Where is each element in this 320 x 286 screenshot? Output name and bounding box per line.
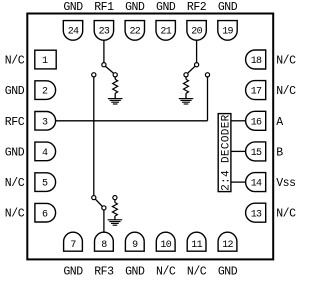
svg-text:20: 20 <box>191 27 202 38</box>
wire decoder to pin 14 (Vss) <box>231 181 246 183</box>
switch SW2 pivot contact <box>195 63 199 67</box>
pin 9 pad (bottom row) <box>125 232 144 251</box>
svg-text:N/C: N/C <box>5 55 25 68</box>
svg-text:19: 19 <box>222 27 233 38</box>
svg-text:3: 3 <box>42 117 48 128</box>
wire switch SW3 pivot down to pin 8 (RF3) <box>103 210 105 232</box>
svg-text:14: 14 <box>251 179 262 190</box>
pin 18 pad (right column) <box>246 50 266 69</box>
pin 14 pad (right column) <box>246 173 266 192</box>
svg-text:2: 2 <box>42 87 48 98</box>
svg-text:GND: GND <box>125 266 145 279</box>
pin 22 pad (top row) <box>125 21 144 41</box>
svg-text:22: 22 <box>129 27 140 38</box>
svg-text:16: 16 <box>251 117 262 128</box>
pin 15 pad (right column) <box>246 142 266 161</box>
wire from pin 23 (RF1) down to switch pivot <box>103 40 105 62</box>
wire from pin 20 (RF2) down to switch pivot <box>196 40 198 62</box>
pin 6 pad (left column) <box>35 203 56 222</box>
resistor R2 (RF2 termination) <box>184 79 189 93</box>
pin 13 pad (right column) <box>246 203 266 222</box>
pin 19 pad (top row) <box>218 21 237 41</box>
switch SW2 termination contact <box>184 73 188 77</box>
ground symbol below R1 <box>108 98 123 100</box>
pin 2 pad (left column) <box>35 81 56 100</box>
switch SW1 arm (thrown to termination) <box>105 66 113 73</box>
svg-text:N/C: N/C <box>5 208 25 221</box>
svg-text:GND: GND <box>218 266 238 279</box>
switch SW1 pivot contact <box>102 63 106 67</box>
svg-text:11: 11 <box>191 240 202 251</box>
svg-text:24: 24 <box>68 27 79 38</box>
decoder U1 block <box>218 114 232 192</box>
pin 17 pad (right column) <box>246 81 266 100</box>
svg-text:21: 21 <box>160 27 171 38</box>
pin 10 pad (bottom row) <box>156 232 175 251</box>
pin 1 pad (square, left column) <box>35 50 56 69</box>
pin 7 pad (bottom row) <box>64 232 83 251</box>
svg-text:18: 18 <box>251 56 262 67</box>
svg-text:GND: GND <box>218 1 238 14</box>
svg-text:5: 5 <box>42 179 48 190</box>
svg-text:GND: GND <box>63 266 83 279</box>
RFC vertical bus wire (SW1 contact to SW3 contact) <box>93 77 95 196</box>
pin 5 pad (left column) <box>35 173 56 192</box>
switch SW3 termination contact (open) <box>113 196 117 200</box>
svg-text:N/C: N/C <box>276 85 296 98</box>
svg-text:15: 15 <box>251 148 262 159</box>
svg-text:10: 10 <box>160 240 171 251</box>
switch SW3 arm (closed to RFC) <box>95 199 102 206</box>
wire termination contact to resistor R1 <box>114 77 116 79</box>
svg-text:12: 12 <box>222 240 233 251</box>
svg-text:N/C: N/C <box>276 55 296 68</box>
svg-text:RF1: RF1 <box>94 1 114 14</box>
switch SW1 termination contact <box>113 73 117 77</box>
pin 12 pad (bottom row) <box>218 232 237 251</box>
pin 4 pad (left column) <box>35 142 56 161</box>
wire resistor R3 to ground <box>114 216 116 220</box>
svg-text:17: 17 <box>251 87 262 98</box>
svg-text:7: 7 <box>70 240 76 251</box>
svg-text:A: A <box>276 116 283 129</box>
pin 24 pad (top row) <box>63 21 82 41</box>
wire resistor R2 to ground <box>185 93 187 98</box>
pin 23 pad (top row) <box>94 21 113 41</box>
pin 20 pad (top row) <box>187 21 206 41</box>
svg-text:GND: GND <box>5 85 25 98</box>
svg-text:9: 9 <box>132 240 138 251</box>
svg-text:RF2: RF2 <box>187 1 207 14</box>
svg-text:GND: GND <box>125 1 145 14</box>
pin 21 pad (top row) <box>156 21 175 41</box>
wire decoder to pin 15 (B) <box>231 150 246 152</box>
svg-text:B: B <box>276 146 283 159</box>
switch SW2 arm (thrown to termination) <box>188 66 196 73</box>
resistor R1 (RF1 termination) <box>113 79 118 93</box>
switch SW3 pivot contact <box>102 206 106 210</box>
svg-text:4: 4 <box>42 148 48 159</box>
IC package body outline <box>27 14 273 260</box>
svg-text:Vss: Vss <box>276 177 295 190</box>
svg-text:N/C: N/C <box>5 177 25 190</box>
svg-text:6: 6 <box>42 209 48 220</box>
svg-text:GND: GND <box>5 146 25 159</box>
svg-text:23: 23 <box>99 27 110 38</box>
svg-text:RF3: RF3 <box>94 266 114 279</box>
pin 8 pad (bottom row) <box>95 232 114 251</box>
svg-text:N/C: N/C <box>156 266 176 279</box>
svg-text:N/C: N/C <box>276 208 296 221</box>
svg-text:GND: GND <box>63 1 83 14</box>
svg-text:RFC: RFC <box>5 116 25 129</box>
wire termination contact to resistor R3 <box>114 200 116 203</box>
switch SW1 contact to RFC bus (open) <box>92 73 96 77</box>
switch SW2 contact to RFC bus (open) <box>205 73 209 77</box>
pin 3 pad (left column) <box>35 112 56 131</box>
svg-text:GND: GND <box>156 1 176 14</box>
wire termination contact to resistor R2 <box>185 77 187 79</box>
svg-text:2:4 DECODER: 2:4 DECODER <box>220 114 232 191</box>
ground symbol below R3 <box>108 219 123 221</box>
wire RF2 contact down to RFC bus <box>207 77 209 121</box>
pin 11 pad (bottom row) <box>187 232 206 251</box>
svg-text:N/C: N/C <box>187 266 207 279</box>
RFC horizontal bus wire from pin 3 <box>56 120 208 122</box>
wire decoder to pin 16 (A) <box>231 120 246 122</box>
svg-text:1: 1 <box>42 56 48 67</box>
svg-text:13: 13 <box>251 209 262 220</box>
resistor R3 (RF3 termination) <box>112 203 117 217</box>
pin 16 pad (right column) <box>246 111 266 130</box>
svg-text:8: 8 <box>101 240 107 251</box>
wire resistor R1 to ground <box>114 93 116 98</box>
ground symbol below R2 <box>179 98 194 100</box>
switch SW3 contact on RFC bus <box>92 196 96 200</box>
